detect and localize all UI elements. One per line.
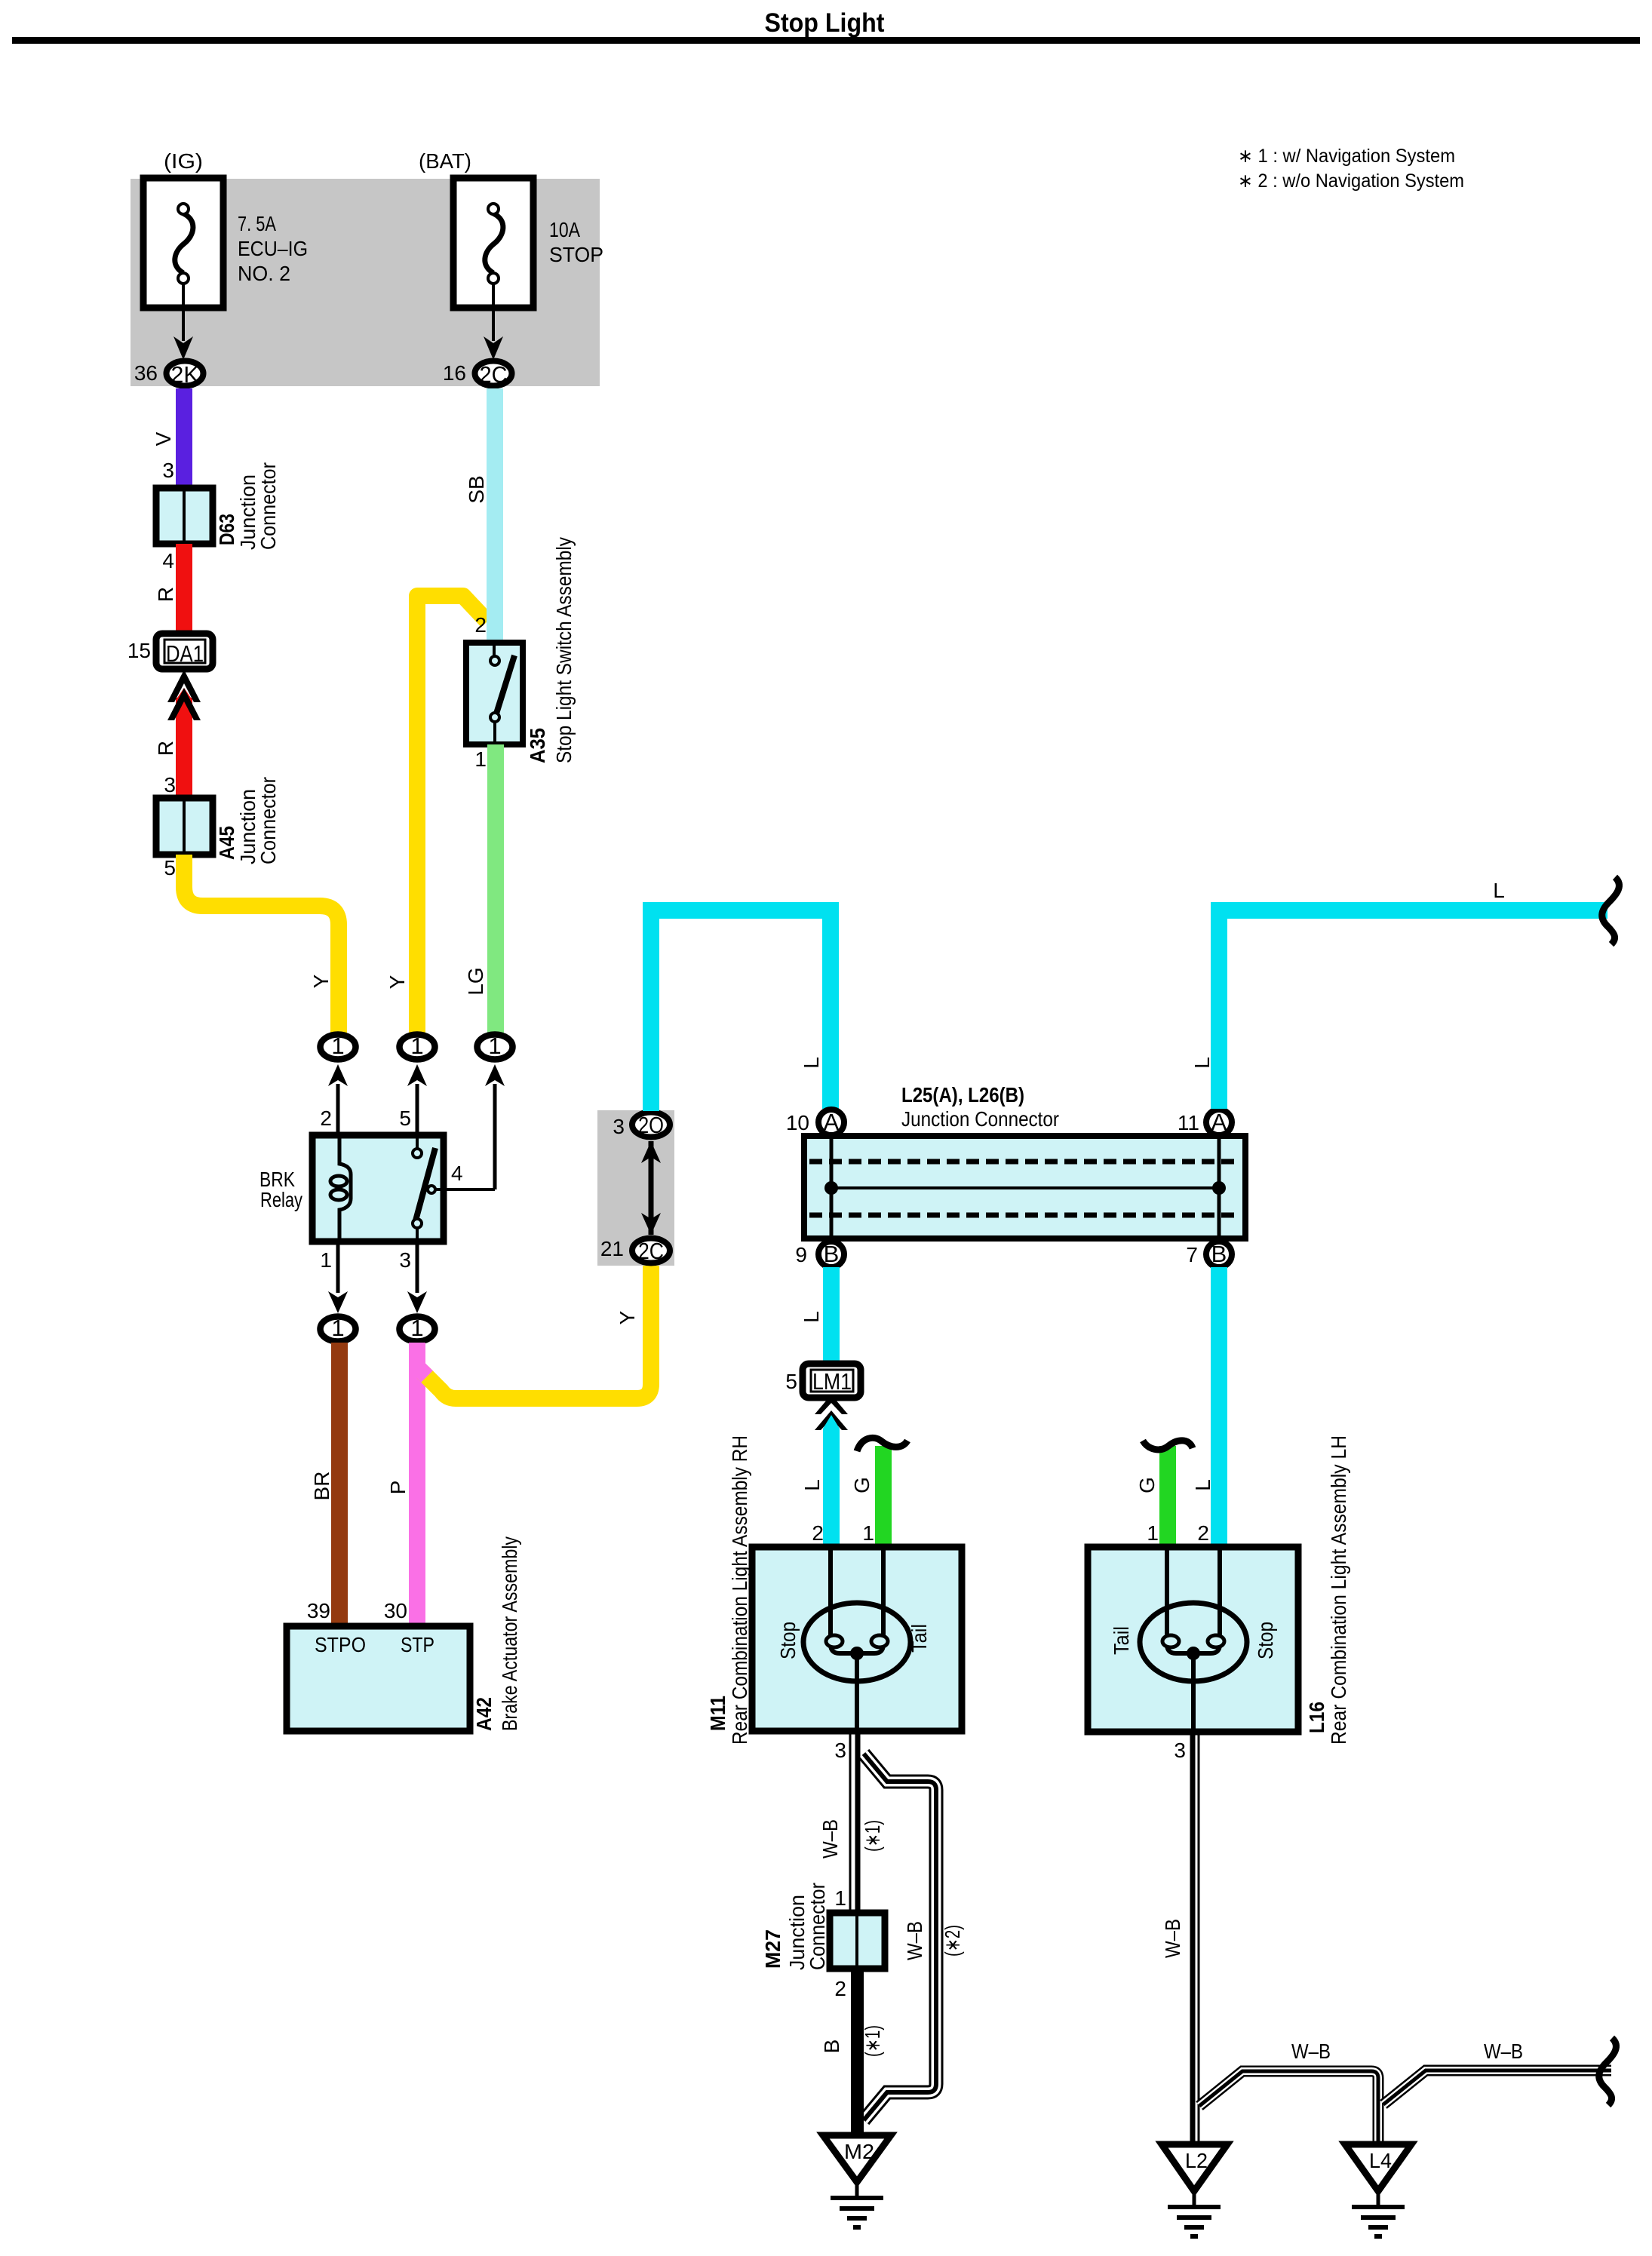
svg-text:2: 2 (834, 1977, 846, 2000)
svg-text:∗ 2 : w/o Navigation System: ∗ 2 : w/o Navigation System (1238, 170, 1464, 192)
arrow out of relay pin 3 (416, 1242, 419, 1293)
svg-text:Stop: Stop (1254, 1622, 1277, 1659)
svg-text:LG: LG (464, 967, 487, 995)
title rule (12, 37, 1640, 44)
wire L (cyan) junction connector A pin 11 to right edge (1219, 910, 1607, 1109)
svg-text:A: A (824, 1109, 840, 1135)
svg-text:Relay: Relay (260, 1188, 302, 1211)
wire V (violet) 2K to D63 (176, 388, 192, 488)
fuse block (gray) (131, 179, 600, 386)
wire W-B branch to ground L4 (1199, 2071, 1378, 2144)
svg-text:SB: SB (465, 475, 488, 503)
svg-text:W–B: W–B (1291, 2040, 1331, 2063)
svg-text:Y: Y (616, 1310, 639, 1324)
arrow into relay pin 2 (328, 1064, 348, 1086)
fuse ECU-IG NO.2 7.5A (143, 149, 308, 308)
svg-text:STPO: STPO (315, 1633, 366, 1656)
fuse STOP 10A (419, 149, 603, 308)
svg-text:Y: Y (309, 974, 333, 988)
svg-text:Connector: Connector (806, 1883, 829, 1970)
wire W-B L16 pin 3 to ground L2 (1193, 1731, 1199, 2144)
connector oval 2C pin 16 (475, 361, 512, 386)
svg-text:3: 3 (399, 1248, 411, 1272)
relay coil (339, 1135, 351, 1242)
wire Y (yellow) A45 pin5 to BRK relay pin 2 (184, 855, 339, 1035)
svg-text:A: A (1211, 1109, 1227, 1135)
connector circle A pin 11 (1206, 1110, 1232, 1135)
connector oval 2K pin 36 (167, 361, 204, 386)
svg-text:(IG): (IG) (164, 149, 203, 173)
svg-text:M11: M11 (706, 1696, 729, 1731)
svg-text:2K: 2K (171, 361, 199, 388)
svg-text:1: 1 (410, 1315, 423, 1341)
svg-text:LM1: LM1 (812, 1368, 852, 1395)
svg-text:9: 9 (795, 1243, 807, 1266)
svg-text:R: R (154, 587, 177, 602)
svg-text:1: 1 (862, 1521, 874, 1545)
svg-text:(∗1): (∗1) (861, 1820, 884, 1852)
wire LG (light green) switch pin 1 to relay pin 4 (487, 744, 504, 1035)
connector oval 1 (relay pin 4) (477, 1035, 513, 1060)
junction connector D63 (156, 462, 280, 550)
svg-text:Connector: Connector (256, 462, 280, 550)
wire L (cyan) 2O to junction connector A pin 10 (651, 910, 831, 1111)
svg-text:7. 5A: 7. 5A (238, 212, 276, 235)
svg-text:B: B (820, 2040, 843, 2054)
wire break symbol right end of W-B (1599, 2038, 1617, 2105)
svg-text:Rear Combination Light Assembl: Rear Combination Light Assembly RH (728, 1435, 751, 1745)
junction connector A45 (156, 777, 280, 864)
connector DA1 pin 15 (127, 634, 213, 669)
svg-text:ECU–IG: ECU–IG (238, 237, 308, 260)
wire W-B bypass (*2) around M27 to ground (864, 1754, 936, 2120)
svg-text:B: B (1211, 1241, 1227, 1267)
svg-text:Junction Connector: Junction Connector (901, 1107, 1059, 1131)
svg-text:7: 7 (1186, 1243, 1198, 1266)
arrow into relay pin 4 (485, 1064, 505, 1086)
svg-text:L: L (1493, 879, 1505, 902)
connector circle A pin 10 (818, 1110, 844, 1135)
svg-text:M27: M27 (761, 1929, 785, 1969)
wire break symbol right end of L (1602, 877, 1620, 944)
svg-text:1: 1 (834, 1886, 846, 1910)
svg-text:L: L (1191, 1479, 1214, 1491)
svg-text:Stop Light: Stop Light (765, 8, 885, 38)
svg-text:∗ 1 : w/ Navigation System: ∗ 1 : w/ Navigation System (1238, 146, 1455, 167)
junction connector M27 (761, 1883, 885, 2000)
svg-text:Connector: Connector (256, 777, 280, 864)
arrow into relay pin 5 (407, 1064, 427, 1086)
arrow out of relay pin 1 (336, 1242, 340, 1293)
svg-text:W–B: W–B (818, 1819, 842, 1859)
wire G (green) to M11 pin 1 with break (875, 1446, 892, 1547)
svg-text:3: 3 (162, 459, 174, 482)
svg-text:10: 10 (786, 1111, 809, 1134)
svg-text:1: 1 (331, 1315, 344, 1341)
svg-text:11: 11 (1178, 1111, 1199, 1134)
ground L2 (1162, 2144, 1227, 2236)
svg-text:3: 3 (1174, 1739, 1186, 1762)
svg-text:39: 39 (307, 1599, 330, 1622)
svg-text:Brake Actuator Assembly: Brake Actuator Assembly (498, 1536, 521, 1731)
double arrow between 2O and 2C (649, 1141, 654, 1235)
bulb LH (1140, 1603, 1247, 1681)
svg-text:B: B (824, 1241, 840, 1267)
wire Y (yellow) switch pin 2 to BRK relay pin 5 (417, 596, 487, 1035)
wire BR (brown) relay pin 1 to A42 pin 39 (331, 1343, 348, 1626)
svg-text:15: 15 (127, 639, 151, 662)
ground L4 (1345, 2144, 1411, 2236)
svg-text:L2: L2 (1185, 2149, 1208, 2172)
svg-text:Stop Light Switch Assembly: Stop Light Switch Assembly (552, 537, 576, 763)
svg-text:DA1: DA1 (166, 640, 204, 667)
wire L (cyan) junction connector B pin 9 to LM1 (823, 1267, 840, 1364)
svg-text:Stop: Stop (776, 1622, 800, 1659)
svg-text:2: 2 (320, 1107, 332, 1130)
svg-text:2: 2 (812, 1521, 824, 1545)
connector oval 2O pin 3 (632, 1113, 670, 1137)
svg-text:(∗1): (∗1) (861, 2025, 884, 2057)
svg-text:STOP: STOP (549, 243, 603, 266)
svg-text:1: 1 (488, 1033, 501, 1059)
svg-text:5: 5 (785, 1370, 797, 1393)
svg-text:(BAT): (BAT) (419, 149, 471, 173)
wire fuse STOP to connector 2C (492, 284, 495, 341)
svg-text:L: L (800, 1311, 823, 1323)
svg-text:L4: L4 (1369, 2149, 1392, 2172)
junction chevrons below LM1 (815, 1395, 848, 1414)
svg-text:A35: A35 (526, 728, 549, 763)
wire G (green) to L16 pin 1 with break (1159, 1446, 1176, 1547)
wire fuse IG to connector 2K (182, 284, 185, 341)
connector LM1 pin 5 (785, 1364, 861, 1398)
svg-text:D63: D63 (215, 514, 238, 545)
svg-text:G: G (1135, 1477, 1159, 1493)
gray strip connector 2O/2C (597, 1110, 674, 1266)
svg-text:1: 1 (410, 1033, 423, 1059)
svg-text:P: P (386, 1481, 410, 1495)
svg-text:4: 4 (451, 1162, 463, 1185)
connector circle B pin 9 (818, 1242, 844, 1267)
svg-text:3: 3 (613, 1115, 625, 1138)
svg-text:2O: 2O (638, 1112, 664, 1138)
svg-text:21: 21 (600, 1237, 624, 1260)
junction chevrons below DA1 (167, 670, 201, 702)
wire R (red) DA1 to A45 (176, 688, 192, 700)
pink branch stub (416, 1365, 427, 1377)
svg-text:Tail: Tail (907, 1624, 931, 1653)
brake actuator assembly A42 (287, 1536, 521, 1731)
wire SB (pale blue) 2C to stop light switch pin 2 (487, 388, 503, 643)
wire W-B continuing to right edge (1383, 2070, 1611, 2104)
svg-text:L16: L16 (1305, 1702, 1328, 1733)
svg-text:1: 1 (331, 1033, 344, 1059)
connector circle B pin 7 (1206, 1242, 1232, 1267)
svg-text:BR: BR (310, 1472, 333, 1501)
svg-text:5: 5 (399, 1107, 411, 1130)
svg-text:STP: STP (401, 1633, 434, 1656)
svg-text:NO. 2: NO. 2 (238, 262, 290, 285)
connector oval 1 (relay pin 2) (321, 1035, 356, 1060)
svg-text:W–B: W–B (903, 1921, 926, 1960)
svg-text:2C: 2C (638, 1238, 664, 1264)
wire W-B M11 pin 3 to M27 pin 1 (850, 1731, 858, 1913)
wire L (cyan) LM1 to M11 pin 2 (823, 1415, 840, 1550)
ground M2 (823, 2135, 891, 2227)
stop light switch assembly A35 (466, 537, 576, 771)
bulb RH (803, 1603, 910, 1681)
wire B (black) M27 pin 2 to ground M2 (851, 1969, 864, 2135)
svg-text:M2: M2 (844, 2140, 874, 2163)
svg-text:Tail: Tail (1110, 1626, 1133, 1655)
svg-text:10A: 10A (549, 218, 580, 241)
svg-text:V: V (152, 431, 175, 446)
svg-text:(∗2): (∗2) (941, 1925, 964, 1957)
connector oval 1 (relay pin 1) (321, 1317, 356, 1342)
svg-text:3: 3 (834, 1739, 846, 1762)
svg-text:5: 5 (164, 856, 176, 879)
svg-text:36: 36 (134, 361, 158, 385)
svg-text:Rear Combination Light Assembl: Rear Combination Light Assembly LH (1327, 1435, 1350, 1745)
wire L (cyan) junction connector B pin 7 to L16 pin 2 (1211, 1267, 1227, 1547)
svg-text:G: G (850, 1477, 874, 1493)
connector oval 1 (relay pin 5) (400, 1035, 435, 1060)
svg-text:W–B: W–B (1161, 1919, 1184, 1958)
wire Y (yellow) branch from P to connector 2C pin 21 (422, 1264, 651, 1398)
svg-text:Y: Y (385, 975, 409, 989)
rear combination light assembly LH L16 (1088, 1435, 1350, 1745)
svg-text:A45: A45 (215, 826, 238, 860)
svg-text:R: R (154, 741, 177, 756)
svg-text:4: 4 (162, 549, 174, 572)
svg-text:2C: 2C (480, 361, 508, 388)
wire P (pink) relay pin 3 to A42 pin 30 (409, 1343, 425, 1626)
relay switch (416, 1135, 419, 1148)
svg-text:1: 1 (1147, 1521, 1159, 1545)
svg-text:W–B: W–B (1484, 2040, 1523, 2063)
connector oval 1 (relay pin 3) (400, 1317, 435, 1342)
svg-text:30: 30 (384, 1599, 407, 1622)
BRK relay (259, 1107, 495, 1272)
connector oval 2C pin 21 (632, 1238, 670, 1263)
svg-text:16: 16 (443, 361, 466, 385)
rear combination light assembly RH M11 (706, 1435, 962, 1745)
svg-text:3: 3 (164, 773, 176, 797)
svg-text:2: 2 (1197, 1521, 1209, 1545)
svg-text:1: 1 (320, 1248, 332, 1272)
svg-text:L: L (1190, 1057, 1214, 1069)
svg-text:2: 2 (474, 613, 487, 637)
svg-text:L: L (800, 1057, 823, 1069)
svg-text:L: L (800, 1479, 824, 1491)
wire R (red) D63 to DA1 (176, 544, 192, 634)
svg-text:L25(A), L26(B): L25(A), L26(B) (901, 1083, 1024, 1107)
svg-text:1: 1 (474, 747, 487, 771)
junction connector L25(A) L26(B) (804, 1083, 1245, 1238)
svg-text:A42: A42 (472, 1697, 496, 1731)
